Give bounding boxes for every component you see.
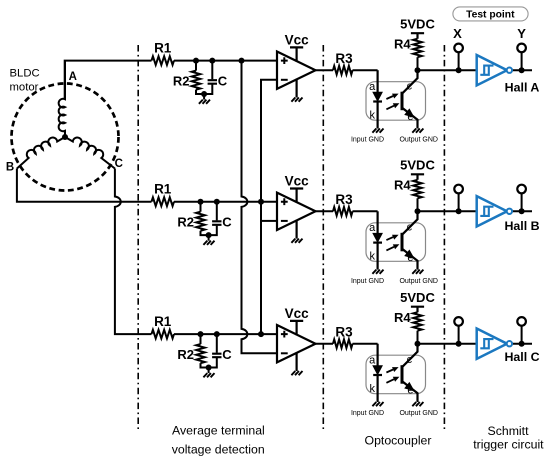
svg-text:Vcc: Vcc <box>285 174 310 189</box>
svg-text:e: e <box>407 111 413 123</box>
svg-text:Test point: Test point <box>466 10 515 21</box>
svg-text:Input GND: Input GND <box>351 137 384 144</box>
svg-text:k: k <box>369 383 375 395</box>
svg-text:B: B <box>6 161 14 173</box>
svg-text:C: C <box>218 73 228 88</box>
svg-text:k: k <box>369 251 375 263</box>
svg-text:R2: R2 <box>173 74 190 89</box>
svg-text:Output GND: Output GND <box>399 137 438 144</box>
svg-text:Hall A: Hall A <box>505 81 540 95</box>
svg-text:X: X <box>453 26 462 41</box>
svg-text:Output GND: Output GND <box>399 410 438 417</box>
svg-text:e: e <box>407 252 413 264</box>
svg-text:C: C <box>115 158 123 170</box>
svg-text:R4: R4 <box>394 310 411 325</box>
svg-text:c: c <box>407 80 413 92</box>
svg-text:c: c <box>407 354 413 366</box>
svg-text:trigger circuit: trigger circuit <box>473 438 544 452</box>
svg-text:R1: R1 <box>154 181 172 196</box>
svg-text:a: a <box>369 222 376 234</box>
svg-text:R2: R2 <box>177 215 194 230</box>
svg-text:c: c <box>407 222 413 234</box>
svg-text:Input GND: Input GND <box>351 278 384 285</box>
svg-text:C: C <box>222 347 232 362</box>
svg-text:Optocoupler: Optocoupler <box>365 434 432 448</box>
svg-text:R3: R3 <box>335 51 353 66</box>
svg-text:5VDC: 5VDC <box>400 158 435 173</box>
svg-text:R4: R4 <box>394 37 411 52</box>
svg-text:Hall B: Hall B <box>504 219 539 233</box>
svg-text:a: a <box>369 355 376 367</box>
svg-text:BLDC: BLDC <box>10 68 40 80</box>
svg-text:Schmitt: Schmitt <box>488 424 530 438</box>
svg-text:R4: R4 <box>394 178 411 193</box>
svg-text:A: A <box>69 71 77 83</box>
svg-text:5VDC: 5VDC <box>400 17 435 32</box>
svg-text:a: a <box>369 81 376 93</box>
svg-text:R1: R1 <box>154 314 172 329</box>
svg-text:C: C <box>222 214 232 229</box>
svg-text:Average terminal: Average terminal <box>172 423 265 437</box>
svg-text:R1: R1 <box>154 40 172 55</box>
svg-text:Hall C: Hall C <box>504 350 539 364</box>
svg-text:R2: R2 <box>177 347 194 362</box>
svg-text:Output GND: Output GND <box>399 278 438 285</box>
svg-text:voltage detection: voltage detection <box>172 442 265 456</box>
svg-text:R3: R3 <box>335 325 353 340</box>
svg-text:motor: motor <box>10 81 39 93</box>
svg-text:e: e <box>407 385 413 397</box>
svg-text:R3: R3 <box>335 192 353 207</box>
svg-text:5VDC: 5VDC <box>400 290 435 305</box>
svg-text:Y: Y <box>517 26 526 41</box>
svg-text:k: k <box>369 110 375 122</box>
svg-text:Vcc: Vcc <box>285 306 310 321</box>
svg-text:Vcc: Vcc <box>285 33 310 48</box>
svg-text:Input GND: Input GND <box>351 410 384 417</box>
